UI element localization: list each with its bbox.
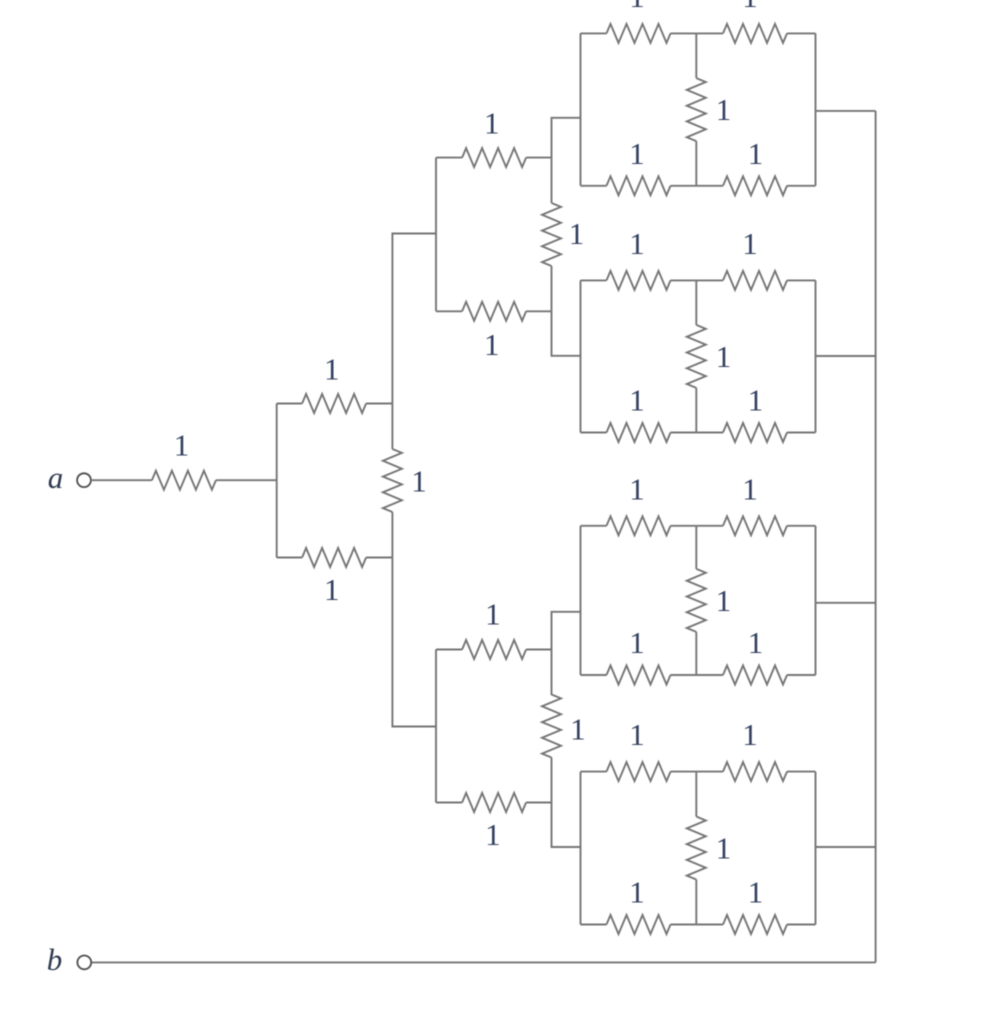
svg-text:1: 1	[629, 136, 645, 171]
wire unit3ab bridge top lead	[695, 280, 697, 325]
wire unit2b top-left lead	[436, 649, 462, 651]
wire riser unit2b top to unit3ba	[552, 612, 581, 650]
resistor R30 1ohm bottom-right of unit3bb	[723, 875, 787, 935]
wire unit3ab top lead1	[581, 279, 607, 281]
resistor R24 1ohm bottom-left of unit3ba	[607, 625, 671, 685]
wire unit3ab right edge	[815, 280, 817, 432]
svg-text:1: 1	[629, 226, 645, 261]
svg-text:1: 1	[748, 625, 764, 660]
wire unit3aa right edge	[815, 33, 817, 185]
wire riser node n3 to unit2b	[392, 558, 436, 727]
wire unit3ba right edge	[815, 526, 817, 675]
wire unit3ab bottom lead3	[696, 432, 723, 434]
resistor R25 1ohm bottom-right of unit3ba	[723, 625, 787, 685]
resistor R13 1ohm middle of unit3aa	[687, 78, 731, 141]
wire unit2a bridge top lead	[551, 158, 553, 203]
wire unit3ab bottom lead1	[581, 432, 607, 434]
resistor R17 1ohm top-right of unit3ab	[723, 226, 787, 290]
resistor R23 1ohm middle of unit3ba	[687, 569, 731, 632]
wire a to R1	[91, 479, 152, 481]
svg-text:1: 1	[742, 0, 758, 14]
wire unit3ba bottom lead2	[671, 674, 697, 676]
resistor R15 1ohm bottom-right of unit3aa	[723, 136, 787, 196]
svg-text:1: 1	[742, 717, 758, 752]
wire unit2b bottom-left lead	[436, 802, 462, 804]
svg-text:1: 1	[629, 0, 645, 14]
wire unit2a bottom-left lead	[436, 310, 462, 312]
wire unit2a bridge bottom lead	[551, 266, 553, 311]
svg-text:1: 1	[484, 106, 500, 141]
wire unit3bb left edge	[580, 772, 582, 925]
resistor R5 1ohm top of unit2a	[462, 106, 526, 168]
wire unit3bb bridge bottom lead	[695, 880, 697, 925]
svg-text:a: a	[48, 460, 64, 495]
resistor R18 1ohm middle of unit3ab	[687, 325, 731, 388]
resistor R3 1ohm bottom of unit1	[302, 548, 366, 607]
wire unit3aa stub to bus	[816, 110, 876, 112]
wire unit3ba top lead2	[671, 525, 697, 527]
wire unit1 left edge	[276, 404, 278, 558]
wire riser node n2 to unit2a	[392, 234, 436, 404]
svg-text:1: 1	[748, 383, 764, 418]
resistor R26 1ohm top-left of unit3bb	[607, 717, 671, 781]
wire riser unit2a top to unit3aa	[552, 118, 581, 158]
wire unit3ba bottom lead3	[696, 674, 723, 676]
resistor R10 1ohm bridge of unit2b	[542, 695, 586, 758]
wire riser unit2b bottom to unit3bb	[552, 803, 581, 848]
wire unit1 top-left lead	[277, 403, 302, 405]
wire unit3aa top lead2	[671, 32, 697, 34]
terminal a	[77, 473, 91, 487]
wire unit2a top-right lead	[526, 157, 551, 159]
wire unit3aa bottom lead4	[787, 185, 816, 187]
wire unit3bb right edge	[815, 772, 817, 925]
svg-text:1: 1	[569, 216, 585, 251]
resistor R11 1ohm top-left of unit3aa	[607, 0, 671, 43]
wire unit3ab bottom lead2	[671, 432, 697, 434]
wire unit3bb bottom lead4	[787, 924, 816, 926]
wire unit3aa bottom lead1	[581, 185, 607, 187]
wire unit3aa top lead4	[787, 32, 816, 34]
wire unit1 top-right lead	[366, 403, 392, 405]
svg-text:1: 1	[716, 831, 732, 866]
wire unit1 bridge top lead	[391, 404, 393, 450]
wire unit3ba bridge bottom lead	[695, 632, 697, 675]
resistor R21 1ohm top-left of unit3ba	[607, 471, 671, 535]
wire unit3aa left edge	[580, 33, 582, 185]
resistor R28 1ohm middle of unit3bb	[687, 817, 731, 880]
wire unit3ab bridge bottom lead	[695, 388, 697, 433]
resistor R8 1ohm top of unit2b	[462, 597, 526, 660]
wire unit2b left edge	[435, 650, 437, 803]
wire unit3ba left edge	[580, 526, 582, 675]
wire unit3bb bottom lead3	[696, 924, 723, 926]
wire unit3bb bottom lead2	[671, 924, 697, 926]
svg-text:1: 1	[716, 583, 732, 618]
wire unit3ba bridge top lead	[695, 526, 697, 569]
svg-text:1: 1	[485, 597, 501, 632]
wire unit3bb top lead4	[787, 771, 816, 773]
wire unit3ab top lead4	[787, 279, 816, 281]
wire unit1 bottom-left lead	[277, 557, 302, 559]
wire R1 to node n1	[216, 479, 277, 481]
wire unit1 bottom-right lead	[366, 557, 392, 559]
resistor R16 1ohm top-left of unit3ab	[607, 226, 671, 290]
resistor R9 1ohm bottom of unit2b	[462, 793, 526, 852]
wire unit2a left edge	[435, 158, 437, 312]
resistor R29 1ohm bottom-left of unit3bb	[607, 875, 671, 935]
svg-text:1: 1	[629, 717, 645, 752]
svg-text:1: 1	[324, 352, 340, 387]
svg-text:1: 1	[748, 136, 764, 171]
wire unit3aa top lead3	[696, 32, 723, 34]
svg-text:1: 1	[629, 625, 645, 660]
wire unit2a top-left lead	[436, 157, 462, 159]
wire unit3aa bottom lead3	[696, 185, 723, 187]
resistor R6 1ohm bottom of unit2a	[462, 302, 526, 362]
resistor R20 1ohm bottom-right of unit3ab	[723, 383, 787, 443]
svg-text:1: 1	[411, 464, 427, 499]
svg-text:1: 1	[742, 471, 758, 506]
wire unit2a bottom-right lead	[526, 310, 551, 312]
wire terminal b line	[92, 961, 876, 963]
svg-text:1: 1	[629, 471, 645, 506]
svg-text:1: 1	[570, 712, 586, 747]
svg-text:1: 1	[324, 572, 340, 607]
wire unit3ab left edge	[580, 280, 582, 432]
svg-text:1: 1	[748, 875, 764, 910]
wire unit3ba top lead3	[696, 525, 723, 527]
resistor R1 1ohm	[152, 428, 216, 490]
svg-text:1: 1	[485, 817, 501, 852]
resistor R19 1ohm bottom-left of unit3ab	[607, 383, 671, 443]
wire unit2b bridge bottom lead	[551, 758, 553, 803]
wire unit3bb top lead2	[671, 771, 697, 773]
resistor R4 1ohm bridge of unit1	[383, 449, 427, 512]
wire unit3ba bottom lead4	[787, 674, 816, 676]
wire unit3bb top lead1	[581, 771, 607, 773]
resistor R2 1ohm top of unit1	[302, 352, 366, 414]
wire unit3aa bridge top lead	[695, 33, 697, 78]
wire unit3aa bridge bottom lead	[695, 141, 697, 186]
wire unit3ba stub to bus	[816, 602, 876, 604]
wire unit3bb stub to bus	[816, 846, 876, 848]
wire unit3bb top lead3	[696, 771, 723, 773]
svg-text:b: b	[47, 942, 63, 977]
wire unit3ba bottom lead1	[581, 674, 607, 676]
wire unit3ba top lead1	[581, 525, 607, 527]
resistor R22 1ohm top-right of unit3ba	[723, 471, 787, 535]
wire right bus	[875, 111, 877, 963]
svg-text:1: 1	[484, 327, 500, 362]
wire unit2b bridge top lead	[551, 650, 553, 696]
svg-text:1: 1	[174, 428, 190, 463]
resistor R12 1ohm top-right of unit3aa	[723, 0, 787, 43]
svg-text:1: 1	[742, 226, 758, 261]
wire unit3aa bottom lead2	[671, 185, 697, 187]
svg-text:1: 1	[716, 339, 732, 374]
wire unit3aa top lead1	[581, 32, 607, 34]
wire unit3ab stub to bus	[816, 355, 876, 357]
svg-text:1: 1	[629, 383, 645, 418]
wire unit3ab top lead3	[696, 279, 723, 281]
resistor R27 1ohm top-right of unit3bb	[723, 717, 787, 781]
wire riser unit2a bottom to unit3ab	[552, 311, 581, 356]
svg-text:1: 1	[629, 875, 645, 910]
wire unit1 bridge bottom lead	[391, 512, 393, 558]
wire unit3ab bottom lead4	[787, 432, 816, 434]
resistor R7 1ohm bridge of unit2a	[542, 203, 584, 266]
wire unit3ba top lead4	[787, 525, 816, 527]
svg-text:1: 1	[716, 92, 732, 127]
wire unit3bb bottom lead1	[581, 924, 607, 926]
resistor R14 1ohm bottom-left of unit3aa	[607, 136, 671, 196]
wire unit3bb bridge top lead	[695, 772, 697, 817]
wire unit2b bottom-right lead	[526, 802, 551, 804]
wire unit3ab top lead2	[671, 279, 697, 281]
wire unit2b top-right lead	[526, 649, 551, 651]
terminal b	[77, 956, 91, 970]
